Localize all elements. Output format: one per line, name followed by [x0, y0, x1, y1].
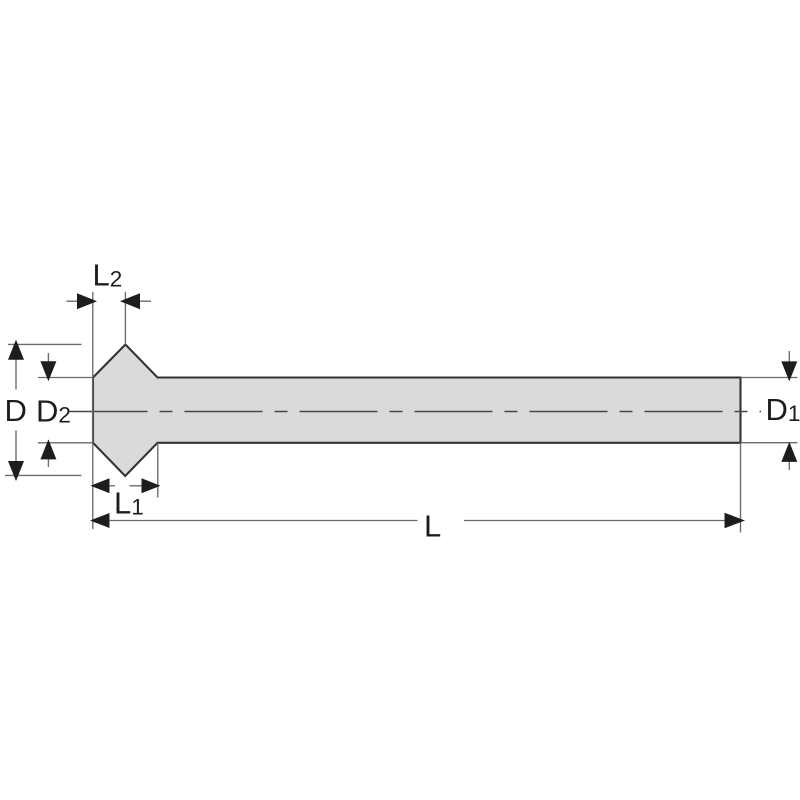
- dimension D: down arrow: [8, 461, 24, 481]
- dimension D: lower shaft: [15, 431, 17, 465]
- extension line: D2 top horizontal: [38, 377, 92, 379]
- dimension D1: up arrow: [781, 442, 797, 462]
- dimension L2: right-pointing arrow: [77, 293, 97, 309]
- dimension D: up arrow: [8, 340, 24, 360]
- dimension L1: right tail: [130, 485, 143, 487]
- dimension L: left line: [109, 520, 418, 522]
- centerline (dash-dot axis): [70, 411, 762, 413]
- dimension D2: up arrow: [40, 439, 56, 459]
- dimension L: left-pointing arrow: [90, 513, 110, 528]
- extension line: head-shank junction vertical: [157, 443, 159, 498]
- extension line: top apex vertical: [124, 292, 126, 345]
- dimension D1: down arrow: [781, 361, 797, 381]
- extension line: D2 bottom horizontal: [38, 442, 92, 444]
- svg-text:L: L: [424, 509, 441, 544]
- dimension L2: left-pointing arrow: [120, 293, 140, 309]
- cutter body (head + shank): [93, 345, 741, 477]
- dimension D2: lower shaft: [47, 456, 49, 468]
- svg-text:D2: D2: [36, 394, 71, 429]
- dimension L1: right-pointing arrow: [142, 478, 161, 493]
- dimension D: upper shaft: [15, 358, 17, 390]
- dimension D2: down arrow: [40, 361, 56, 381]
- svg-text:D: D: [5, 393, 27, 428]
- extension line: top apex horizontal: [8, 343, 82, 345]
- extension line: bottom apex horizontal: [5, 474, 82, 476]
- extension line: D1 bottom horizontal: [741, 442, 798, 444]
- dimension L2: right tail: [138, 300, 151, 302]
- extension line: head left edge vertical: [92, 292, 94, 529]
- svg-text:D1: D1: [766, 392, 800, 427]
- dimension L1: left-pointing arrow: [91, 478, 110, 493]
- dimension D1: lower shaft: [788, 458, 790, 470]
- svg-text:L1: L1: [114, 486, 144, 521]
- dimension D1: upper shaft: [788, 351, 790, 365]
- extension line: D1 top horizontal: [741, 377, 798, 379]
- extension line: shank right edge vertical: [740, 443, 742, 533]
- dimension L1: left tail: [108, 485, 115, 487]
- svg-text:L2: L2: [93, 258, 123, 293]
- dimension L: right line: [464, 520, 726, 522]
- dimension D2: upper shaft: [47, 353, 49, 365]
- dimension L: right-pointing arrow: [725, 513, 746, 529]
- dimension L2: left tail: [67, 300, 81, 302]
